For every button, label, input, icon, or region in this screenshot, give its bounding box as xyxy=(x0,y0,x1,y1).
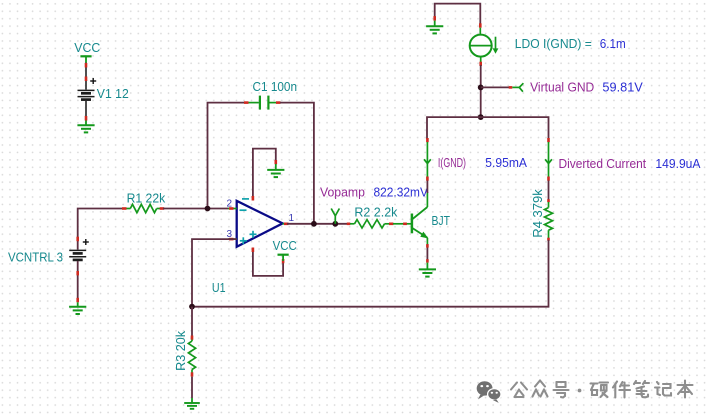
wire source to rail xyxy=(480,65,482,117)
pin tick collector branch b xyxy=(426,177,429,181)
wire to collector xyxy=(426,181,428,194)
wire top ground to source xyxy=(435,4,481,25)
pin number 1 xyxy=(289,213,295,224)
wire rail to R3 xyxy=(191,307,193,336)
pin tick probe xyxy=(509,86,513,89)
svg-text:R1 22k: R1 22k xyxy=(127,190,166,205)
svg-text:VCC: VCC xyxy=(74,40,100,55)
VCNTRL plus sign xyxy=(83,239,89,245)
wire VCNTRL - to ground xyxy=(77,261,79,302)
pin number 3 xyxy=(227,229,233,240)
ground top xyxy=(426,21,443,34)
wire emitter to ground xyxy=(426,244,428,260)
LDO value xyxy=(600,37,626,51)
wire junction up to C1 left xyxy=(208,103,245,206)
C1 value label xyxy=(253,79,298,94)
pin tick pin2 xyxy=(229,207,234,210)
wire VCC to V1 + xyxy=(85,63,87,90)
current marker I(GND) xyxy=(424,142,431,177)
watermark wechat icon xyxy=(477,381,501,403)
wire R2 to base xyxy=(393,223,407,225)
svg-text:R4 379k: R4 379k xyxy=(531,188,545,237)
ground above U1 xyxy=(267,164,284,177)
ground below R3 xyxy=(184,398,200,409)
U1 ref label xyxy=(212,280,226,295)
V1 value label xyxy=(97,86,129,101)
V+ supply plus mark xyxy=(240,237,247,244)
resistor R1 xyxy=(127,204,161,212)
pin tick R1 right xyxy=(160,207,165,210)
pin tick gnd V- xyxy=(274,160,277,164)
wire R4 to bottom rail xyxy=(192,240,549,307)
wire output xyxy=(287,223,348,225)
pin tick VCNTRL bot b xyxy=(76,298,79,303)
pin tick R2 right xyxy=(389,223,393,226)
svg-text:C1 100n: C1 100n xyxy=(253,79,298,94)
pin tick emitter b xyxy=(426,259,429,262)
pin tick C1 right xyxy=(276,101,281,104)
wire V1 - to ground xyxy=(85,101,87,121)
Virtual GND label xyxy=(530,80,594,94)
ground below VCNTRL xyxy=(69,302,86,314)
svg-text:R3 20k: R3 20k xyxy=(174,330,188,371)
current marker Diverted xyxy=(545,142,552,177)
pin tick R1 left xyxy=(122,207,127,210)
pin tick V1 bottom xyxy=(85,116,88,121)
svg-text:5.95mA: 5.95mA xyxy=(485,156,527,170)
Diverted Current label xyxy=(559,157,647,171)
pin tick collector branch a xyxy=(426,138,429,142)
pin tick VCC U1 xyxy=(282,259,285,263)
svg-text:BJT: BJT xyxy=(432,214,451,228)
LDO arrow xyxy=(493,37,499,54)
pin 2 stub xyxy=(228,208,237,210)
op-amp U1 triangle xyxy=(237,201,283,247)
wire V+ pin to VCC xyxy=(253,249,283,276)
I(GND) label xyxy=(438,156,466,170)
svg-text:I(GND): I(GND) xyxy=(438,156,466,170)
wire R1 to opamp pin 2 xyxy=(163,208,229,210)
Diverted Current value xyxy=(655,157,701,171)
wire top rail xyxy=(427,117,549,139)
pin tick emitter a xyxy=(426,244,429,247)
svg-text:U1: U1 xyxy=(212,280,226,295)
wire V- pin to ground xyxy=(253,149,276,198)
pin tick R3 top xyxy=(191,336,194,340)
node junction virtual gnd xyxy=(478,85,484,91)
power symbol VCC (U1) xyxy=(278,255,289,261)
pin tick V1 top b xyxy=(85,77,88,82)
capacitor C1 xyxy=(249,96,277,110)
svg-text:VCNTRL 3: VCNTRL 3 xyxy=(8,250,63,265)
I(GND) value xyxy=(485,156,527,170)
svg-text:Vopamp: Vopamp xyxy=(320,185,365,199)
wire to virtual gnd probe xyxy=(481,86,510,88)
pin tick R4 top xyxy=(547,199,550,202)
V1 plus sign xyxy=(90,78,96,84)
V- supply minus mark xyxy=(242,198,249,200)
wire to R4 xyxy=(548,181,550,201)
svg-text:1: 1 xyxy=(289,213,295,224)
pin tick source top xyxy=(479,23,482,27)
non-inverting plus mark xyxy=(250,231,257,238)
BJT ref label xyxy=(432,214,451,228)
resistor R3 xyxy=(188,340,195,373)
battery V1 xyxy=(78,90,95,99)
resistor R4 xyxy=(545,202,553,238)
VCNTRL label xyxy=(8,250,63,265)
node junction bottom rail xyxy=(189,304,195,310)
wire pin3 to bottom rail xyxy=(192,239,237,306)
wire R3 to ground xyxy=(191,377,193,398)
transistor BJT xyxy=(407,192,428,245)
pin tick pin1 xyxy=(284,223,289,226)
node junction top rail xyxy=(478,114,484,120)
LDO label xyxy=(515,37,592,51)
svg-text:2: 2 xyxy=(227,199,233,210)
ground below V1 xyxy=(77,121,94,133)
pin tick V1 top a xyxy=(85,63,88,68)
Vopamp value xyxy=(374,185,429,199)
svg-text:V1 12: V1 12 xyxy=(97,86,129,101)
svg-text:59.81V: 59.81V xyxy=(602,80,643,94)
svg-text:822.32mV: 822.32mV xyxy=(374,185,429,199)
svg-text:6.1m: 6.1m xyxy=(600,37,626,51)
pin tick VCNTRL top xyxy=(76,237,79,242)
current source LDO xyxy=(470,28,492,62)
wire C1 right down to output xyxy=(280,103,314,224)
pin number 2 xyxy=(227,199,233,210)
node junction probe/output xyxy=(332,221,338,227)
svg-text:VCC: VCC xyxy=(273,238,297,253)
VCC net label xyxy=(74,40,100,55)
pin tick R4 branch a xyxy=(547,138,550,142)
resistor R2 xyxy=(350,220,389,228)
svg-text:Diverted Current: Diverted Current xyxy=(559,157,647,171)
pin tick source bottom xyxy=(479,62,482,66)
svg-text:R2 2.2k: R2 2.2k xyxy=(354,205,397,220)
R2 value label xyxy=(354,205,397,220)
svg-text:149.9uA: 149.9uA xyxy=(655,157,701,171)
watermark text 公众号·硬件笔记本 xyxy=(511,381,693,398)
pin 3 stub xyxy=(228,238,237,240)
ground below BJT xyxy=(419,263,436,277)
power symbol VCC (V1 top) xyxy=(80,56,91,62)
pin tick R4 bottom xyxy=(547,238,550,241)
svg-text:Virtual GND: Virtual GND xyxy=(530,80,594,94)
pin tick R2 left xyxy=(347,223,351,226)
pin tick C1 left xyxy=(244,101,249,104)
probe marker Virtual GND xyxy=(512,83,523,92)
inverting minus mark xyxy=(240,209,247,211)
pin 1 output stub xyxy=(283,223,289,225)
R3 value label xyxy=(174,330,188,371)
Vopamp label xyxy=(320,185,365,199)
pin tick BJT base xyxy=(403,223,407,226)
pin tick VCNTRL bot a xyxy=(76,271,79,275)
wire VCNTRL + up to R1 xyxy=(78,209,123,250)
R1 value label xyxy=(127,190,166,205)
pin tick V- xyxy=(252,196,255,201)
pin tick pin3 xyxy=(229,238,234,241)
Virtual GND value xyxy=(602,80,643,94)
svg-text:LDO I(GND) =: LDO I(GND) = xyxy=(515,37,592,51)
pin tick R4 branch b xyxy=(547,177,550,181)
pin tick R3 bottom xyxy=(191,372,194,376)
battery VCNTRL xyxy=(69,250,86,260)
node junction C1/output xyxy=(311,221,317,227)
VCC label U1 xyxy=(273,238,297,253)
R4 value label xyxy=(531,188,545,237)
pin tick V+ xyxy=(252,248,255,253)
probe marker Vopamp xyxy=(331,209,339,224)
node junction R1/C1/pin2 xyxy=(205,206,211,212)
pin tick top gnd xyxy=(433,16,436,21)
